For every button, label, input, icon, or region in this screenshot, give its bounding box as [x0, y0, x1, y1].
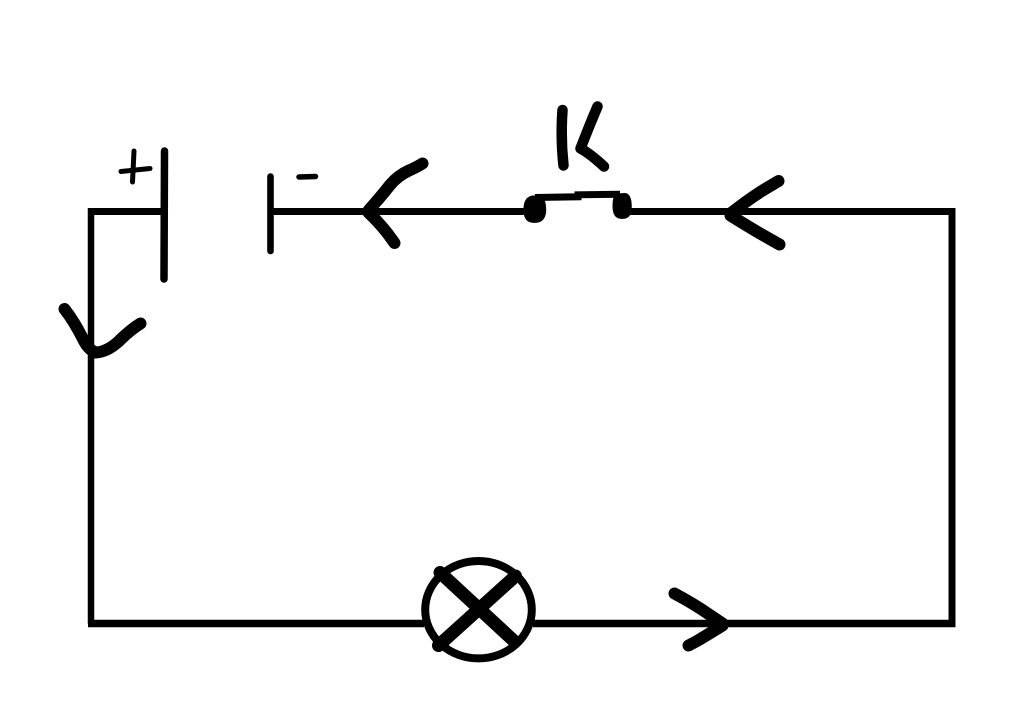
wire bottom-right segment (lamp to corner) [533, 620, 955, 628]
label + (positive terminal) [121, 151, 150, 182]
wire top-middle segment (negative plate to switch) [271, 208, 532, 215]
current arrow on bottom wire (pointing right) [675, 594, 723, 646]
switch K right contact [614, 194, 631, 218]
current arrow on top-middle wire (pointing left) [369, 164, 423, 244]
wire bottom-left segment (corner to lamp) [88, 620, 424, 628]
current arrow on top-right wire (pointing left) [731, 181, 780, 245]
wire left vertical [88, 208, 95, 624]
label K [562, 107, 604, 167]
current arrow on left wire (pointing down) [65, 309, 141, 353]
lamp ring [425, 561, 532, 658]
wire top-right segment (corner to switch) [630, 208, 956, 215]
lamp X stroke 2 [439, 576, 516, 646]
battery positive plate [160, 151, 168, 279]
lamp X stroke 1 [440, 573, 515, 642]
switch K blade [535, 194, 620, 197]
wire right vertical [949, 212, 956, 628]
battery negative plate [267, 177, 274, 252]
label − (negative terminal) [299, 174, 316, 180]
wire top-left segment [92, 208, 165, 215]
switch K left contact [524, 197, 545, 222]
